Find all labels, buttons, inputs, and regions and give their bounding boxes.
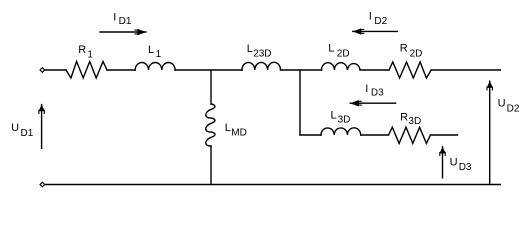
svg-text:R: R [78, 44, 86, 56]
svg-text:R: R [400, 112, 408, 124]
voltage arrow U_D2 [487, 81, 492, 184]
wire R2D to right end [431, 69, 500, 71]
svg-text:3D: 3D [338, 114, 351, 125]
svg-text:L: L [328, 43, 334, 55]
svg-text:MD: MD [231, 127, 247, 138]
svg-text:I: I [113, 12, 116, 24]
svg-text:2D: 2D [410, 49, 423, 60]
svg-text:U: U [450, 157, 458, 169]
svg-text:L: L [247, 43, 253, 55]
svg-text:D2: D2 [507, 103, 520, 114]
wire L_MD branch top [210, 70, 212, 104]
svg-text:U: U [11, 122, 19, 134]
svg-text:D1: D1 [21, 128, 34, 139]
wire top rail from terminal to R1 [45, 69, 66, 71]
wire L_MD branch bottom [210, 146, 212, 185]
terminal top-left diamond [40, 68, 45, 73]
svg-text:D1: D1 [119, 16, 132, 27]
svg-text:L: L [225, 122, 231, 134]
wire L23D to L2D through node2 [281, 69, 322, 71]
svg-text:2D: 2D [337, 49, 350, 60]
resistor R3D [389, 127, 431, 143]
wire L2D to R2D [360, 69, 389, 71]
terminal bottom-left diamond [40, 182, 45, 187]
current arrow I_D1 [100, 29, 146, 35]
bottom rail wire [45, 184, 501, 186]
wire L1 to L23D through node [175, 69, 242, 71]
wire branch node2 down to lower branch [299, 70, 301, 135]
svg-text:D3: D3 [459, 162, 472, 173]
voltage arrow U_D3 [440, 147, 445, 178]
svg-text:1: 1 [87, 49, 93, 60]
svg-text:1: 1 [156, 49, 162, 60]
inductor L_MD vertical coil [206, 104, 215, 146]
inductor L23D [242, 62, 281, 70]
svg-text:D2: D2 [374, 16, 387, 27]
svg-text:U: U [498, 98, 506, 110]
wire L3D to R3D [361, 134, 389, 136]
svg-text:23D: 23D [253, 49, 271, 60]
svg-text:3D: 3D [408, 116, 421, 127]
inductor L1 [135, 63, 175, 71]
svg-text:I: I [369, 11, 372, 23]
current arrow I_D3 [350, 100, 395, 106]
voltage arrow U_D1 [39, 105, 44, 149]
inductor L2D [322, 63, 361, 70]
wire R1 to L1 [107, 69, 135, 71]
resistor R1 [66, 62, 107, 79]
wire lower branch from node2 to L3D [300, 134, 321, 136]
svg-text:I: I [365, 83, 368, 95]
svg-text:L: L [148, 44, 154, 56]
resistor R2D [389, 62, 431, 78]
svg-text:L: L [331, 109, 337, 121]
inductor L3D [321, 128, 361, 135]
wire R3D open end [431, 134, 458, 136]
svg-text:D3: D3 [371, 88, 384, 99]
current arrow I_D2 [353, 29, 398, 35]
svg-text:R: R [400, 43, 408, 55]
